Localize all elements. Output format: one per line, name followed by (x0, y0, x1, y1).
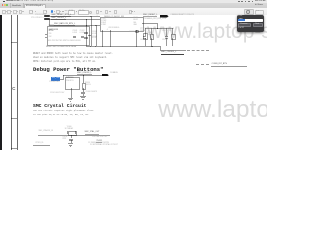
ground sym 3 (68, 142, 73, 145)
group1 value text (140, 40, 146, 42)
section title SMC Crystal Circuit (33, 105, 86, 110)
arrow flag SMC_RESET_L (160, 15, 169, 18)
net label SMC_ONOFF_BTN_L (51, 17, 66, 20)
zone tick lower (11, 117, 18, 120)
wire stub row3 vert (48, 19, 51, 25)
junction rail 4 (110, 46, 111, 47)
wire from flag to switch (60, 78, 64, 81)
net label SMC_ONOFF_L mid (77, 72, 92, 75)
pullup top rail (145, 27, 173, 30)
junction rail 3 (102, 46, 103, 47)
junction x90.6 top (90, 16, 91, 17)
connector title (104, 17, 124, 19)
wire group1 tops (144, 28, 147, 36)
sheet border outer line (10, 15, 13, 150)
wire vert x95.7 (95, 25, 98, 46)
pin stub conn bottom 2 (135, 30, 138, 46)
switch inner text (66, 81, 73, 83)
watermark upper (147, 21, 320, 42)
junction rail 1 (90, 46, 91, 47)
net label SMC_ONOFF_L right (161, 51, 176, 53)
pin stub conn bottom 1 (109, 30, 112, 46)
resistor R5110 text (85, 83, 91, 86)
junction rail 2 (95, 46, 96, 47)
switch SW5100 box (65, 77, 80, 90)
search highlight SW_ONOFF_L (51, 77, 60, 81)
net label SMC_RESET_L (143, 14, 157, 17)
wire group2 cap down (165, 38, 168, 46)
switch refdes (66, 78, 73, 80)
resistor R5103 text (147, 33, 152, 36)
part number MAX6818 (49, 29, 58, 31)
junction R5110 (83, 75, 84, 76)
capacitor group1 plates (143, 35, 146, 38)
note under IC (46, 47, 77, 49)
pin stub IC right (88, 34, 91, 37)
sheet border inner line (16, 15, 19, 150)
crystal notes line2 (88, 143, 108, 145)
capacitor group2 plates (165, 35, 168, 38)
desktop strip on far left (0, 15, 2, 150)
crystal notes line3 (90, 145, 118, 147)
wire group1 res down (150, 38, 153, 46)
wire row3 (49, 24, 100, 27)
wire drop R5110 (82, 75, 85, 83)
crystal notes line B (33, 114, 89, 116)
wire vert at x86.4 (85, 19, 88, 46)
wire vert at x90.6 (90, 16, 93, 46)
wire R5110 to cap (82, 88, 85, 92)
capacitor C5100 plates (69, 138, 73, 141)
capacitor C5101 text (72, 31, 77, 34)
junction x86.4 top (86, 19, 87, 20)
ground rail (86, 45, 160, 48)
net label xtal in (39, 131, 53, 133)
net label xtal out (85, 132, 100, 135)
capacitor C5106 plates (81, 91, 85, 94)
gray text right of arrow (171, 15, 195, 17)
notes line 3 (33, 61, 96, 63)
resistor R5103 (143, 33, 148, 40)
wire C5106 to ground (82, 94, 85, 96)
gray text row below (143, 19, 166, 21)
IC U5110 box (47, 26, 90, 46)
pin stub left 2 (45, 36, 47, 39)
resistor group2 body (171, 34, 176, 41)
pin stub left 1 (45, 33, 47, 36)
crystal Y5100 body (68, 131, 76, 136)
wire vert x102.3 (101, 30, 104, 46)
zone tick upper (11, 41, 18, 44)
pin text under conn 1 (106, 30, 109, 32)
junction rail 5 (136, 46, 137, 47)
connector pin text right (133, 18, 137, 20)
dashed stub far right (196, 64, 209, 65)
notes line 1 (33, 53, 113, 55)
wire xtal main (38, 134, 110, 137)
capacitor C5106 text (86, 92, 97, 94)
pin label IN2 (49, 37, 52, 39)
wire xtal cap drop (70, 135, 73, 138)
capacitor C5104 (84, 36, 88, 39)
wire drop to switch (62, 75, 65, 79)
notes line 2 (33, 57, 107, 59)
connector J5100 box (100, 17, 144, 32)
wire row1 left (50, 15, 100, 18)
crystal notes Y5111 (96, 140, 102, 143)
wire onoff top (63, 74, 102, 77)
wire SMC_ONOFF_L right (160, 49, 186, 52)
net flag pill SMC_RESET_BTN_L (44, 15, 50, 17)
junction pullup rail (157, 28, 158, 29)
arrow flag onoff (102, 74, 109, 76)
capacitor C5101 plates (73, 35, 76, 38)
capacitor C5102 text (80, 31, 85, 34)
net label CONN_INT_BTN (212, 63, 227, 65)
crystal notes gray (92, 137, 107, 139)
wire pullup rail drop (156, 23, 159, 29)
pin text under conn 2 (135, 30, 138, 33)
zone tick bottom (11, 147, 18, 150)
capacitor C5100 text (62, 137, 67, 140)
IC bottom note (48, 41, 81, 43)
net label SMC_RESET_BTN_L (51, 14, 71, 17)
net flag pill SMC_ONOFF_BTN_L (44, 18, 50, 20)
ground sym 2 (80, 95, 85, 98)
zone letter C (12, 87, 15, 91)
node SMC_RESET_BTN_L ref text (35, 15, 46, 17)
resistor R5110 body (82, 83, 87, 90)
part suffix (49, 31, 54, 33)
wire C5100 to ground (70, 140, 73, 143)
connector pin text 3 (101, 23, 106, 25)
wire jog down (159, 46, 162, 51)
crystal Y5100 text (67, 127, 72, 129)
connector pin text 2 (101, 21, 106, 23)
power rail group 2 (162, 29, 170, 32)
bottom left gray text (36, 143, 44, 145)
wire switch to ground (70, 88, 73, 98)
gray text under flag (49, 82, 59, 84)
node SMC_ONOFF_BTN_L ref text (31, 18, 43, 20)
net label SMC_BATLOW_BTN_L (54, 23, 75, 26)
bottom left wire (33, 144, 50, 146)
pin numbers left of connector (96, 16, 99, 18)
ground sym 1 (68, 97, 73, 100)
pin label IN1 (49, 34, 52, 36)
crystal notes line A (33, 110, 93, 112)
junction rail 6 (151, 46, 152, 47)
wire from conn to pullup rail (142, 22, 157, 25)
watermark lower (158, 98, 320, 123)
wire group2 res down (171, 38, 174, 46)
power rail group 1 (140, 29, 148, 32)
text DEBUG under conn (129, 32, 135, 34)
dashed continuation (187, 50, 209, 51)
capacitor C5103 text (84, 31, 88, 34)
capacitor C5102 plates (81, 35, 84, 38)
wire group2 tops (165, 28, 168, 36)
wire row2 (50, 18, 100, 21)
section title Debug Power Buttons (33, 67, 104, 73)
crystal plate right (74, 131, 77, 134)
refdes U5110 (49, 26, 54, 28)
gray text left of C5106 (50, 93, 64, 95)
resistor group1 body (150, 34, 155, 41)
wire group1 cap down (144, 38, 147, 46)
gray text right of onoff arrow (110, 73, 117, 75)
wire CONN_INT_BTN (211, 65, 247, 67)
underline of label (161, 53, 184, 55)
connector pin text 1 (101, 19, 106, 21)
group2 value text (162, 40, 168, 42)
crystal plate left (66, 131, 69, 134)
